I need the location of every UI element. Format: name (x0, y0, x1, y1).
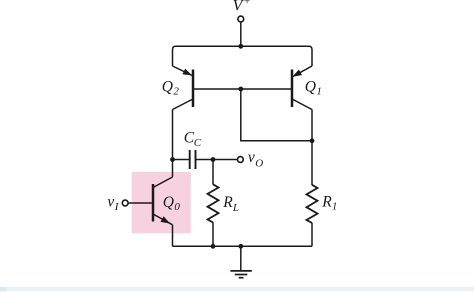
transistor Q2 (173, 66, 194, 110)
bottom page strip (0, 287, 474, 292)
node base junction (238, 87, 243, 92)
svg-text:R: R (222, 194, 233, 211)
node vO junction (211, 157, 216, 162)
node V+ rail junction (238, 44, 243, 49)
svg-text:0: 0 (174, 201, 180, 213)
output terminal vO (238, 157, 244, 163)
label Q2 (162, 78, 180, 97)
ground (230, 246, 251, 277)
svg-text:R: R (321, 194, 332, 211)
svg-text:Q: Q (305, 78, 316, 95)
transistor Q1 (292, 66, 312, 110)
wire base rail Q2-Q1 (194, 88, 291, 90)
label RL (222, 194, 239, 214)
svg-text:C: C (194, 137, 202, 149)
wire top supply rail (173, 46, 313, 66)
wire Q0 emitter down (172, 225, 174, 247)
label CC (184, 129, 202, 149)
wire Q1 collector down to R1 (311, 110, 313, 186)
wire bottom rail (173, 245, 313, 247)
label R1 (321, 194, 337, 213)
resistor RL (208, 160, 219, 247)
node ground junction (238, 244, 243, 249)
svg-text:v: v (248, 149, 255, 166)
wire vI to Q0 base (128, 202, 152, 204)
label vI (107, 193, 119, 213)
label Q1 (305, 78, 322, 97)
svg-text:1: 1 (316, 85, 322, 97)
node CC left junction (170, 157, 175, 162)
power terminal V+ (238, 16, 244, 22)
label Q0 (163, 194, 181, 213)
input terminal vI (122, 200, 128, 206)
wire V+ lead (240, 22, 242, 46)
svg-text:v: v (107, 193, 114, 210)
highlight box around Q0 (132, 172, 191, 234)
svg-text:1: 1 (332, 201, 338, 213)
resistor R1 (307, 185, 318, 247)
node RL bottom junction (211, 244, 216, 249)
svg-text:Q: Q (163, 194, 174, 211)
label vO (248, 149, 263, 169)
svg-text:Q: Q (162, 78, 173, 95)
label V+ (233, 0, 251, 15)
svg-text:L: L (232, 202, 239, 214)
svg-text:O: O (255, 157, 263, 169)
svg-text:2: 2 (173, 85, 179, 97)
wire base to Q1 collector tie (241, 89, 312, 141)
wire Q0 collector up to CC (172, 160, 174, 178)
node collector tie junction (310, 138, 315, 143)
svg-text:+: + (243, 0, 250, 8)
capacitor CC (173, 150, 238, 169)
wire Q2 collector down (172, 110, 174, 160)
transistor Q0 (153, 177, 173, 225)
svg-text:I: I (114, 201, 120, 213)
